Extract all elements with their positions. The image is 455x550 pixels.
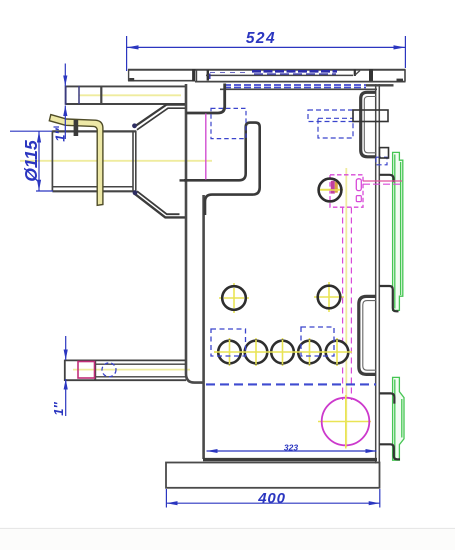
svg-text:1″: 1″ (53, 128, 68, 142)
svg-text:Ø115: Ø115 (21, 140, 41, 182)
svg-text:524: 524 (246, 30, 276, 47)
svg-text:400: 400 (257, 490, 285, 507)
svg-text:323: 323 (284, 443, 298, 453)
svg-text:1″: 1″ (51, 402, 66, 416)
